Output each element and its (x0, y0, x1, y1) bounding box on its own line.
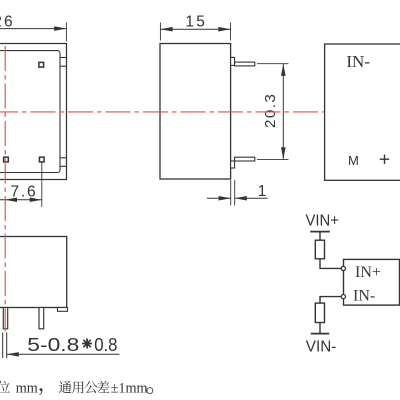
pin right (39, 308, 44, 329)
bottom side view body (0, 237, 67, 308)
asterisk star (82, 339, 92, 349)
svg-text:7.6: 7.6 (11, 184, 38, 201)
terminal bar top (310, 231, 330, 233)
svg-text:0.8: 0.8 (94, 334, 117, 355)
terminal bar bottom (311, 333, 329, 335)
top view box (IN-) (325, 44, 400, 180)
svg-text:26: 26 (0, 13, 15, 30)
pin left (3, 308, 7, 329)
svg-text:15: 15 (185, 13, 207, 30)
svg-text:5-0.8: 5-0.8 (27, 334, 79, 355)
svg-text:VIN-: VIN- (306, 338, 337, 355)
bottom pin (235, 157, 255, 161)
bottom pin nub (231, 161, 235, 168)
dimension 7.6 (0, 163, 42, 208)
side notch ticks (60, 58, 67, 167)
red vertical centerline (4, 46, 6, 332)
wire VIN+ to R1 (319, 232, 321, 241)
dimension 26 (0, 23, 66, 42)
svg-text:IN+: IN+ (355, 264, 381, 281)
node IN+ (341, 266, 345, 270)
svg-text:1: 1 (258, 183, 267, 200)
wire R2 to VIN- (319, 323, 321, 334)
module box (344, 259, 400, 305)
top pin (235, 62, 255, 66)
pin pad square top (39, 62, 44, 67)
wire R1 to node IN+ (320, 259, 341, 269)
svg-text:M: M (348, 153, 359, 168)
footnote text (0, 380, 153, 396)
svg-text:20.3: 20.3 (262, 93, 279, 128)
dimension 20.3 (257, 64, 289, 160)
svg-text:mm: mm (16, 380, 38, 396)
pin pad square bottom-left (4, 157, 9, 162)
svg-text:±1mm: ±1mm (111, 380, 148, 396)
pin pad square bottom-right (39, 157, 44, 162)
label + (380, 155, 389, 164)
node IN- (341, 295, 345, 299)
dimension 1 (pin thickness) (207, 180, 268, 206)
top pin nub (231, 57, 235, 65)
dimension 5-0.8*0.8 (3, 333, 120, 359)
svg-text:IN-: IN- (346, 52, 370, 71)
resistor R1 (315, 240, 324, 259)
red horizontal centerline (0, 111, 324, 113)
side view body (middle) (160, 44, 231, 180)
svg-text:IN-: IN- (353, 288, 375, 305)
wire node IN- to R2 (320, 297, 341, 304)
mounting foot (58, 308, 68, 312)
front view outer body (0, 44, 67, 180)
resistor R2 (315, 303, 324, 322)
dimension 15 (160, 23, 230, 41)
front view inner body outline (0, 51, 60, 173)
svg-text:VIN+: VIN+ (306, 213, 340, 230)
